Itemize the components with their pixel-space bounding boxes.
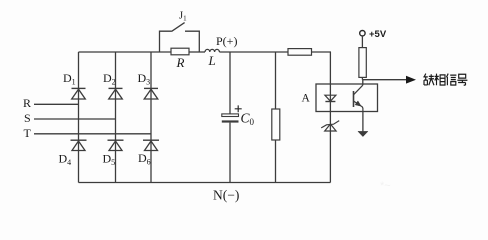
LED inside optocoupler bbox=[325, 95, 336, 101]
label R phase bbox=[23, 96, 31, 110]
label D4 bbox=[59, 152, 72, 168]
wire collector to node bbox=[361, 80, 363, 86]
label P(+) node bbox=[216, 34, 237, 48]
wire resistor to collector node bbox=[361, 77, 363, 79]
号 bbox=[457, 74, 467, 85]
信 bbox=[446, 74, 456, 86]
diode D6 bbox=[143, 140, 159, 150]
svg-text:A: A bbox=[302, 93, 311, 105]
zener diode bbox=[321, 121, 339, 131]
label S phase bbox=[24, 111, 31, 125]
wire +5V to resistor bbox=[361, 36, 363, 48]
inductor L bbox=[205, 49, 219, 52]
wire top rail middle segment bbox=[219, 51, 288, 53]
label D1 bbox=[63, 71, 76, 87]
svg-text:R: R bbox=[23, 96, 31, 110]
label D5 bbox=[103, 152, 116, 168]
diode D5 bbox=[108, 140, 124, 150]
label N(-) node bbox=[213, 188, 239, 203]
wire J1 bypass branch bbox=[160, 31, 200, 52]
label D2 bbox=[103, 71, 116, 87]
resistor (series, unlabeled) bbox=[288, 49, 312, 56]
label C0 bbox=[241, 110, 255, 127]
label D6 bbox=[138, 151, 151, 167]
svg-text:+5V: +5V bbox=[369, 29, 387, 40]
相 bbox=[435, 74, 446, 86]
wire bridge column 2 (D2/D5) bbox=[115, 52, 117, 183]
wire resistor branch upper bbox=[275, 52, 277, 109]
svg-text:S: S bbox=[24, 111, 31, 125]
wire top rail left segment bbox=[79, 51, 172, 53]
svg-text:N(−): N(−) bbox=[213, 188, 239, 203]
label R bbox=[176, 55, 185, 70]
缺 bbox=[423, 74, 434, 86]
diode D4 bbox=[71, 140, 87, 150]
label L bbox=[208, 53, 216, 68]
wire top rail right segment bbox=[312, 51, 332, 53]
switch J1 blade bbox=[172, 23, 185, 32]
wire resistor branch lower bbox=[275, 140, 277, 183]
wire bottom rail bbox=[79, 182, 331, 184]
wire capacitor branch lower bbox=[229, 123, 231, 183]
label T phase bbox=[24, 126, 32, 140]
wire phase R bbox=[34, 103, 79, 105]
svg-text:P(+): P(+) bbox=[216, 34, 237, 48]
wire between R and L bbox=[189, 51, 205, 53]
wire bridge column 1 (D1/D4) bbox=[78, 52, 80, 183]
diode D2 bbox=[109, 88, 123, 99]
svg-text:R: R bbox=[176, 55, 185, 70]
resistor (vertical bleeder) bbox=[272, 109, 280, 140]
label A bbox=[302, 93, 311, 105]
wire output arrow bbox=[362, 76, 416, 84]
wire right rail bbox=[329, 52, 331, 183]
wire phase S bbox=[34, 118, 116, 120]
phototransistor inside optocoupler bbox=[354, 85, 363, 111]
wire capacitor branch upper bbox=[229, 52, 231, 114]
ground bbox=[358, 131, 368, 136]
resistor (pull-up, vertical) bbox=[359, 48, 366, 78]
wire emitter down bbox=[362, 112, 364, 132]
capacitor C0 bbox=[222, 114, 239, 123]
diode D1 bbox=[72, 88, 86, 99]
+5V terminal bbox=[360, 31, 365, 36]
svg-text:L: L bbox=[208, 53, 216, 68]
svg-text:*~: *~ bbox=[380, 180, 391, 192]
label 缺相信号 (phase-loss signal, drawn strokes) bbox=[423, 74, 467, 86]
label J1 bbox=[179, 11, 187, 23]
svg-text:T: T bbox=[24, 126, 32, 140]
label +5V bbox=[369, 29, 387, 40]
label + polarity bbox=[235, 105, 242, 112]
label D3 bbox=[138, 71, 151, 87]
optocoupler U (box) bbox=[316, 84, 378, 112]
diode D3 bbox=[144, 88, 158, 99]
wire phase T bbox=[34, 133, 151, 135]
resistor R bbox=[171, 48, 189, 55]
faint watermark smudge (decor skipped labeling) bbox=[380, 180, 391, 192]
wire bridge column 3 (D3/D6) bbox=[150, 52, 152, 183]
